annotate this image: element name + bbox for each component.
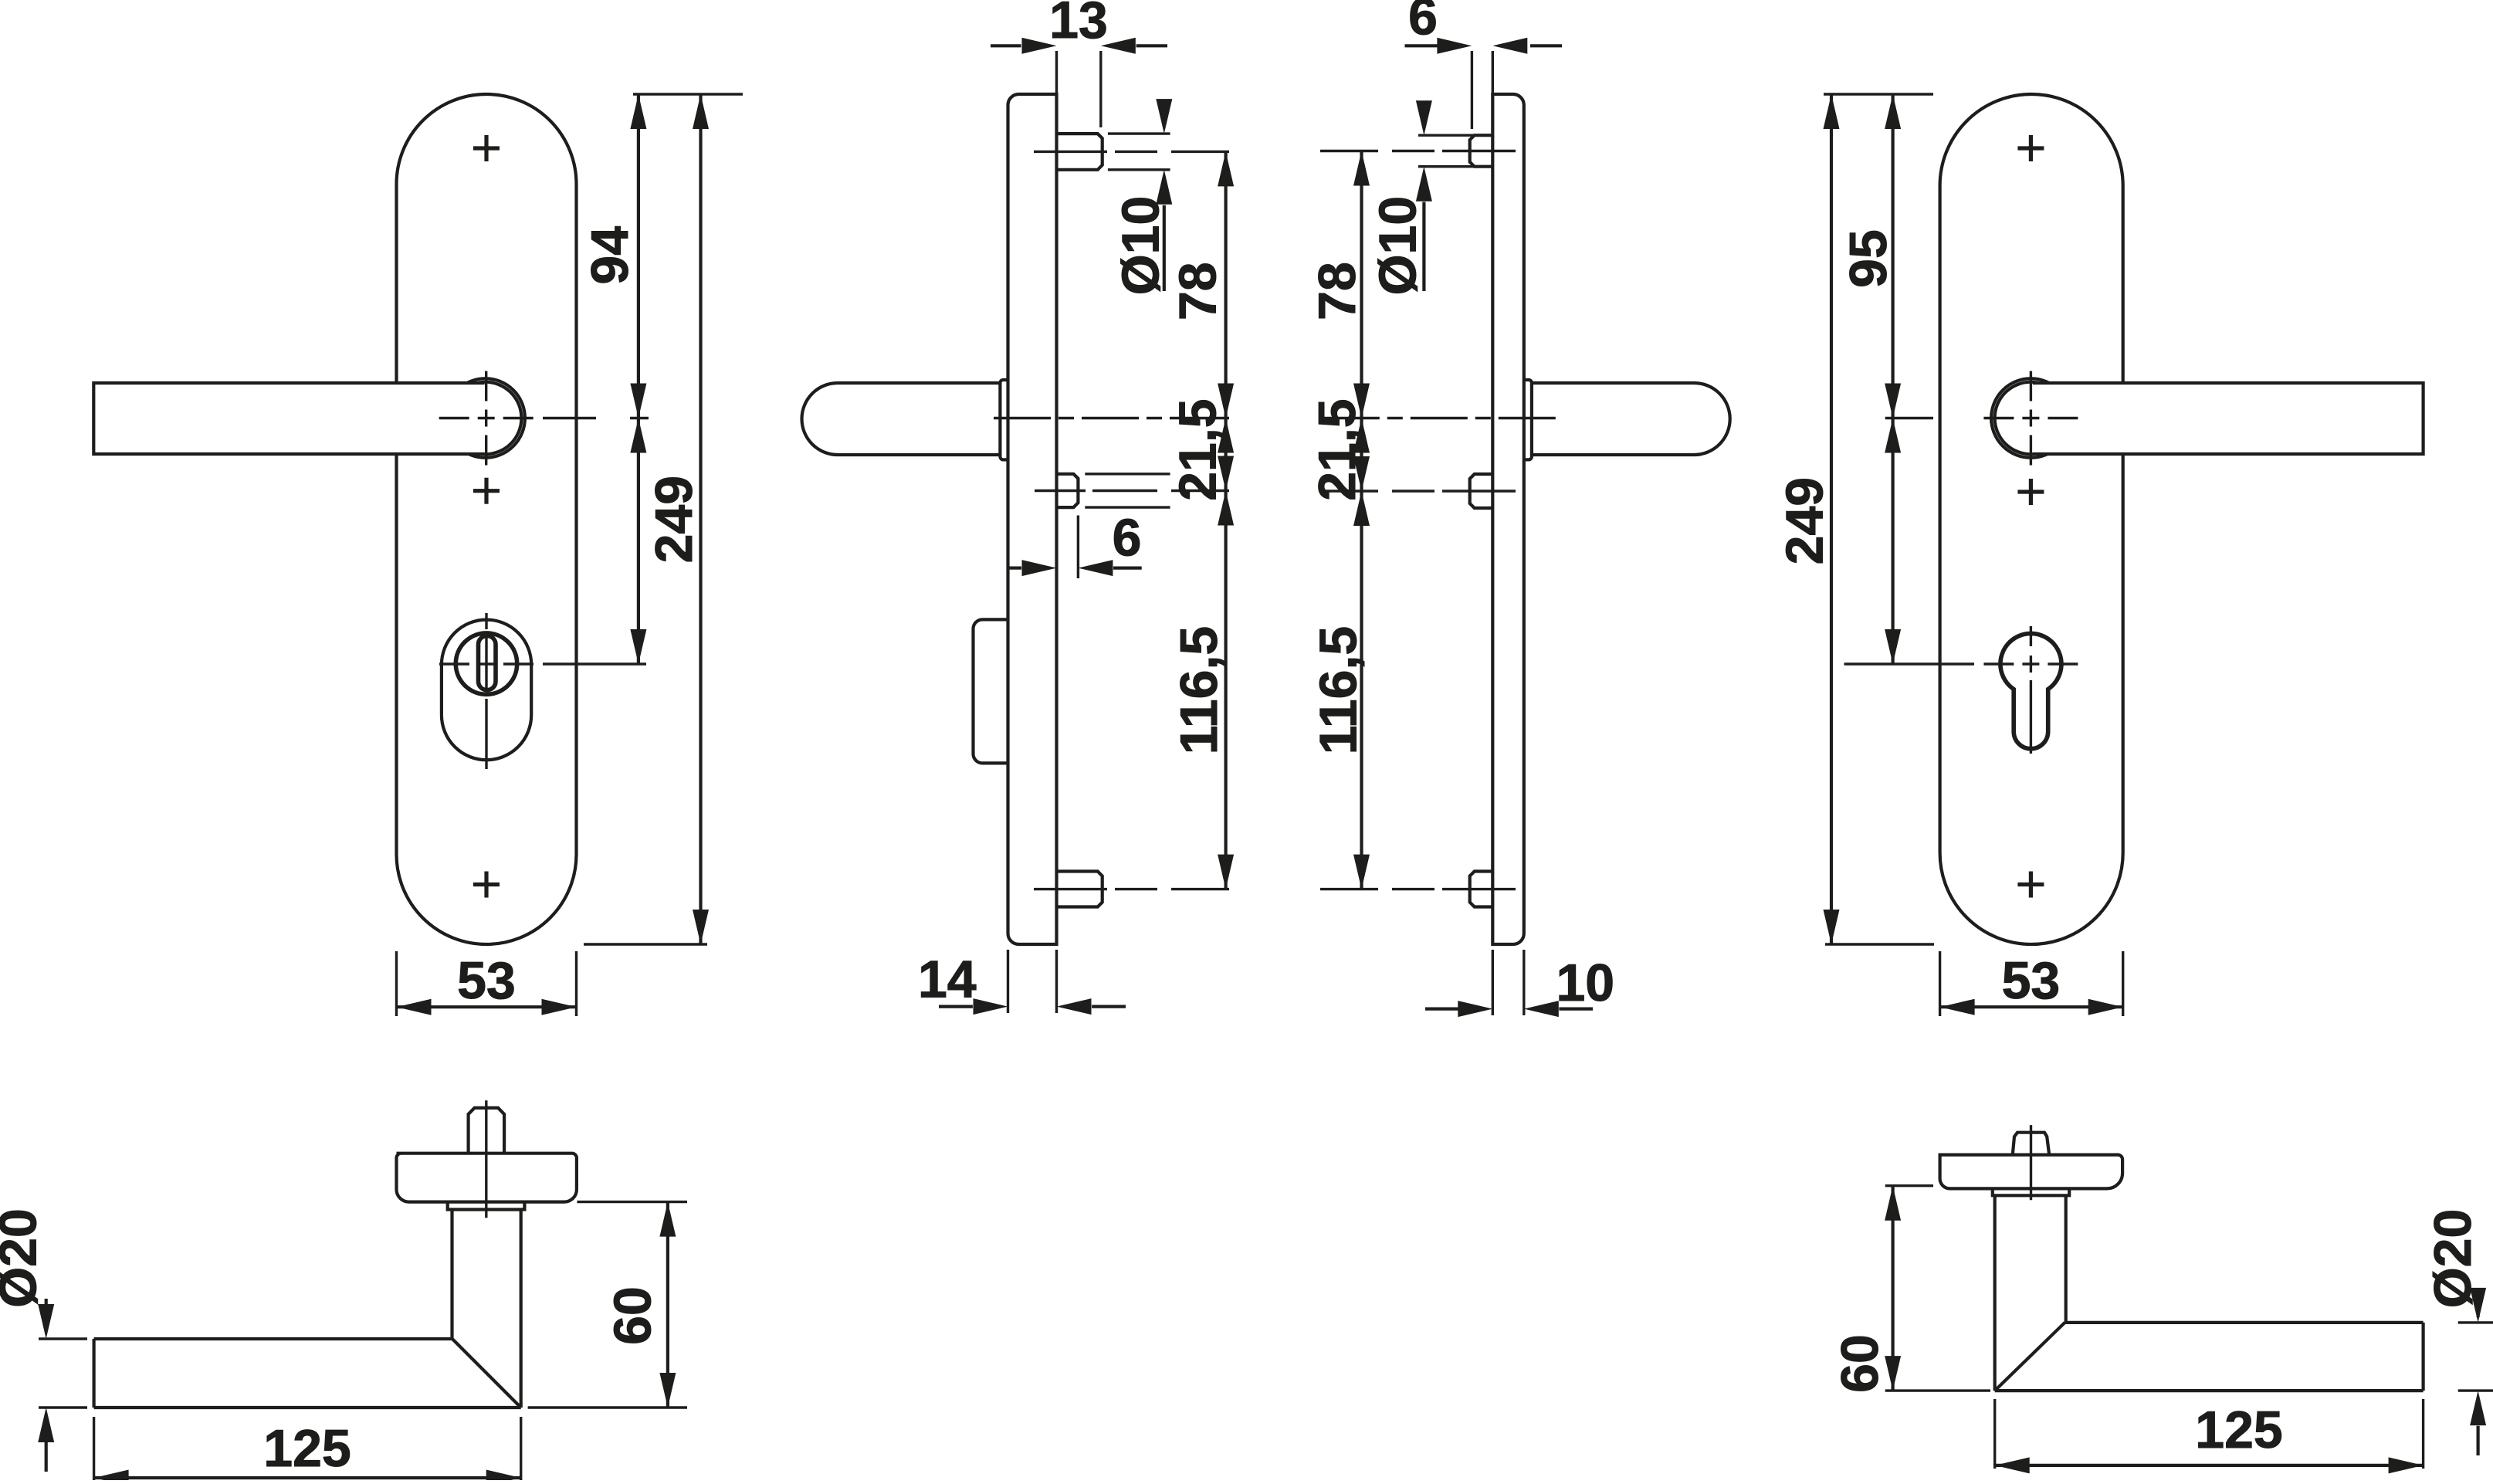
svg-text:13: 13 (1049, 0, 1108, 49)
svg-text:116,5: 116,5 (1309, 626, 1367, 754)
svg-text:249: 249 (1775, 477, 1834, 564)
svg-text:Ø10: Ø10 (1112, 196, 1170, 296)
svg-text:125: 125 (263, 1419, 351, 1478)
svg-text:21,5: 21,5 (1308, 398, 1367, 500)
svg-text:78: 78 (1169, 262, 1228, 320)
svg-text:95: 95 (1839, 229, 1898, 288)
svg-text:249: 249 (645, 476, 703, 563)
svg-text:94: 94 (581, 226, 639, 285)
svg-text:78: 78 (1308, 262, 1367, 320)
svg-text:53: 53 (457, 951, 516, 1010)
svg-text:Ø20: Ø20 (2424, 1209, 2482, 1309)
svg-text:Ø20: Ø20 (0, 1208, 48, 1308)
svg-text:116,5: 116,5 (1170, 626, 1228, 754)
svg-text:Ø10: Ø10 (1369, 196, 1428, 296)
svg-text:14: 14 (918, 950, 977, 1009)
svg-text:6: 6 (1113, 508, 1142, 567)
svg-text:125: 125 (2195, 1401, 2282, 1459)
svg-text:21,5: 21,5 (1169, 398, 1228, 500)
svg-text:6: 6 (1408, 0, 1438, 46)
svg-text:10: 10 (1556, 954, 1614, 1012)
svg-text:60: 60 (1831, 1334, 1889, 1393)
svg-text:53: 53 (2002, 951, 2061, 1010)
svg-text:60: 60 (604, 1286, 662, 1345)
